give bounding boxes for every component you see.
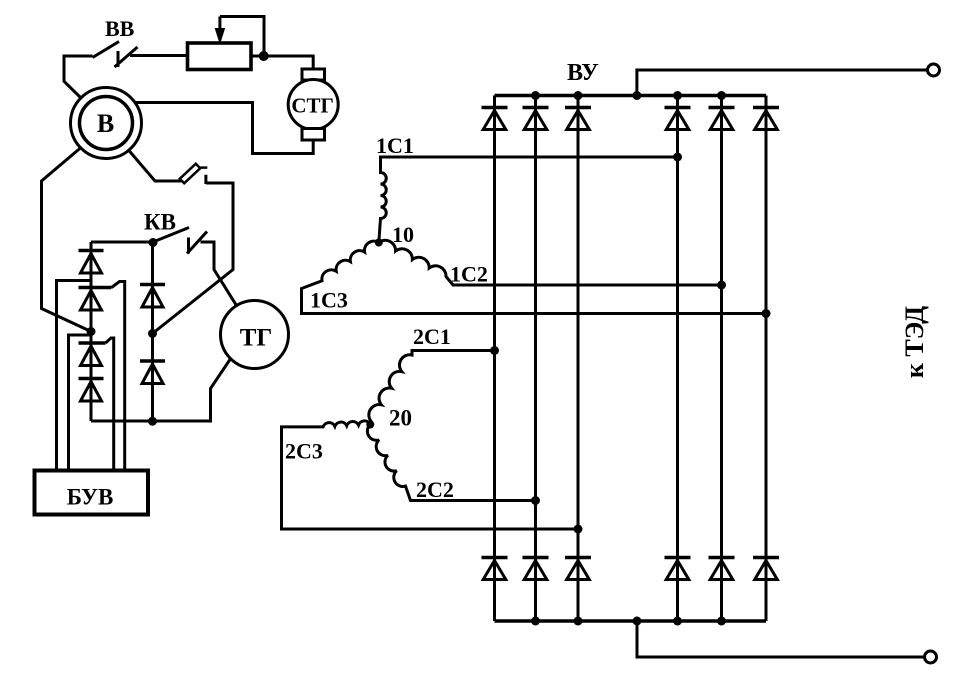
diode VD8 bottom row	[523, 556, 549, 560]
diode VD17	[140, 283, 165, 287]
junction 1C2 to column 5	[717, 281, 726, 290]
junction column 2 bottom	[148, 417, 157, 426]
junction on bottom bus	[633, 617, 642, 626]
wire KV to TG	[201, 242, 237, 306]
rheostat body	[188, 43, 252, 70]
winding phase 1C3	[302, 241, 767, 313]
diode VD18	[140, 359, 165, 363]
diode VD15 with lead to BUV	[79, 341, 106, 345]
svg-text:10: 10	[392, 222, 414, 247]
wire rectifier column 1	[493, 96, 496, 622]
wire rectifier column 3	[577, 96, 580, 622]
terminal + output	[928, 64, 940, 76]
junction on column 2	[148, 329, 157, 338]
diode VD12 bottom row	[753, 556, 779, 560]
wire rectifier column 5	[720, 96, 723, 622]
svg-text:1С3: 1С3	[310, 288, 348, 313]
diode VD7 bottom row	[482, 556, 508, 560]
diode VD16	[79, 377, 104, 381]
wire knife switch to KV area	[153, 175, 234, 334]
machine TG body	[221, 301, 289, 369]
node 10 star point	[375, 239, 383, 247]
wire wiper to output	[220, 17, 264, 55]
svg-text:БУВ: БУВ	[67, 485, 114, 510]
node 20 star point	[366, 421, 374, 429]
wire STG bottom to B	[133, 103, 313, 154]
junction 1C1 to column 4	[673, 153, 682, 162]
wire left columns top	[91, 241, 153, 244]
svg-text:ВВ: ВВ	[105, 16, 135, 41]
switch BB fixed contact tick	[117, 51, 120, 67]
machine STG body	[288, 80, 338, 130]
diode VD13	[79, 249, 104, 253]
svg-text:20: 20	[389, 406, 412, 431]
svg-text:В: В	[97, 109, 114, 138]
junction 2C1 to column 1	[490, 346, 499, 355]
winding phase 1C2	[379, 240, 722, 285]
switch KV blade	[153, 228, 189, 243]
junction on bottom bus	[673, 617, 682, 626]
winding phase 2C2	[367, 425, 535, 501]
knife switch tip tick	[201, 166, 208, 169]
junction 2C3 to column 3	[574, 525, 583, 534]
junction on top bus	[632, 91, 641, 100]
wire columns bottom to TG	[91, 360, 230, 422]
svg-text:2С1: 2С1	[413, 324, 451, 349]
diode VD9 bottom row	[565, 556, 591, 560]
junction 2C2 to column 2	[531, 496, 540, 505]
diode VD14 with lead to BUV	[79, 286, 112, 290]
winding phase 1C1	[379, 157, 678, 243]
machine STG top brush	[302, 69, 325, 80]
diode VD2 top row	[523, 106, 549, 110]
wire left diode column 1	[90, 242, 93, 421]
knife switch blade	[180, 164, 200, 184]
switch KV fixed contact slash	[187, 232, 207, 254]
junction on top bus	[673, 91, 682, 100]
wire bottom bus of rectifier	[495, 619, 767, 622]
junction on bottom bus	[574, 617, 583, 626]
junction rheostat output	[259, 51, 269, 61]
junction 1C3 to column 6	[762, 309, 771, 318]
wire B to BB switch	[64, 56, 93, 99]
wire B to left diode column	[42, 148, 92, 332]
junction on top bus	[717, 91, 726, 100]
diode VD1 top row	[482, 106, 508, 110]
svg-text:СТГ: СТГ	[291, 94, 334, 118]
switch BB fixed contact slash	[115, 47, 138, 67]
wire rectifier column 4	[676, 96, 679, 622]
junction KV pivot	[149, 238, 158, 247]
winding phase 2C1	[369, 351, 495, 425]
wire top bus of rectifier	[495, 94, 767, 97]
switch BB blade	[93, 42, 120, 58]
wire VD14 cathode to BUV	[112, 282, 125, 471]
junction on top bus	[531, 91, 540, 100]
wire VD15 cathode to BUV	[106, 338, 114, 471]
diode VD10 bottom row	[665, 556, 691, 560]
winding phase 2C3	[282, 421, 579, 529]
wire rectifier column 6	[765, 96, 768, 622]
svg-text:к ТЭД: к ТЭД	[900, 306, 929, 378]
diode VD4 top row	[665, 106, 691, 110]
junction on bottom bus	[717, 617, 726, 626]
svg-text:ТГ: ТГ	[240, 325, 273, 352]
junction on top bus	[574, 91, 583, 100]
svg-text:1С2: 1С2	[450, 262, 488, 287]
exciter B inner circle	[80, 97, 133, 150]
wire BUV lead B	[69, 335, 92, 471]
wire BB to rheostat	[130, 54, 188, 57]
control unit BUV box	[35, 471, 149, 515]
svg-text:1С1: 1С1	[376, 133, 414, 158]
svg-text:2С2: 2С2	[416, 477, 454, 502]
diode VD6 top row	[753, 106, 779, 110]
wire BUV lead A	[57, 281, 92, 471]
wire negative output to terminal	[637, 621, 925, 657]
junction on bottom bus	[531, 617, 540, 626]
wire B to knife switch	[129, 150, 183, 181]
switch KV fixed contact tick	[187, 238, 190, 254]
wire rectifier column 2	[534, 96, 537, 622]
svg-text:2С3: 2С3	[285, 439, 323, 464]
wire left diode column 2	[151, 243, 154, 422]
machine STG bottom brush	[302, 129, 325, 141]
wire rheostat right to STG	[251, 56, 313, 69]
wire positive output to terminal	[637, 70, 928, 96]
diode VD11 bottom row	[709, 556, 735, 560]
junction on column 1	[87, 327, 96, 336]
exciter B outer circle	[71, 88, 142, 159]
svg-text:ВУ: ВУ	[567, 60, 599, 86]
terminal - output	[925, 651, 937, 663]
diode VD5 top row	[709, 106, 735, 110]
diode VD3 top row	[565, 106, 591, 110]
rheostat wiper arrow	[218, 17, 221, 34]
svg-text:КВ: КВ	[144, 210, 176, 235]
